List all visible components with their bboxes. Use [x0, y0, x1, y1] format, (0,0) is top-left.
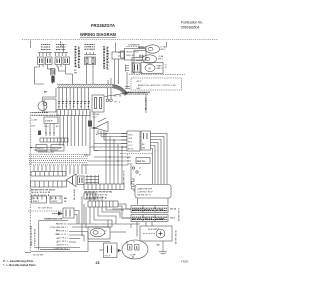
wire color code rows (right aligned) [50, 222, 67, 250]
solenoid valve vertical label column [103, 47, 109, 69]
inline connectors on wires [132, 167, 134, 169]
row wires to compressor area [69, 231, 88, 233]
relay box B [85, 57, 96, 65]
svg-text:RLY·BK: RLY·BK [93, 114, 100, 116]
svg-text:WH·2: WH·2 [158, 59, 163, 61]
ADC left wire [126, 72, 128, 88]
wire code table vertical labels [31, 225, 36, 246]
svg-text:CONTROL·BD·P: CONTROL·BD·P [138, 192, 154, 194]
svg-text:14: 14 [127, 161, 129, 163]
door light switch box 1 [38, 57, 45, 65]
svg-text:SOL·TN·8: SOL·TN·8 [57, 241, 67, 243]
text block below connector [127, 158, 130, 166]
comb strip row [40, 138, 68, 142]
fresh food thermistor box [50, 196, 62, 203]
evap fan motor box [141, 63, 163, 74]
crossing grid horizontals [98, 133, 127, 135]
stubs into compressor top [126, 241, 128, 244]
svg-text:DEF·TH·B: DEF·TH·B [52, 148, 62, 150]
horn output wires [97, 130, 99, 134]
svg-text:FRS26ZGTA: FRS26ZGTA [91, 23, 115, 28]
door switch label cluster 2 [56, 45, 66, 50]
svg-text:GD·GD·WH: GD·GD·WH [33, 255, 44, 257]
tick grid connector [86, 175, 100, 184]
horn mini box [88, 121, 92, 127]
evap fan relay box [133, 63, 141, 72]
main connector strip [57, 110, 90, 116]
strip2 drops to bottom wires [81, 196, 83, 236]
feeds into strip2 [89, 196, 91, 201]
svg-text:TN·8: TN·8 [31, 126, 35, 128]
left margin tick [30, 41, 32, 49]
comb ticks below labels [32, 197, 34, 200]
svg-text:AD·P: AD·P [137, 80, 142, 83]
damper horn component [95, 122, 108, 132]
svg-text:ADAPTIVE·DEFROST·CONTROL·BD: ADAPTIVE·DEFROST·CONTROL·BD [138, 84, 177, 87]
ground symbol [162, 241, 164, 252]
svg-text:ICEMAKER: ICEMAKER [128, 44, 140, 47]
center terminal strip [84, 184, 124, 190]
rotated label right of label rows [179, 207, 181, 221]
fresh food light lamp [143, 55, 157, 63]
wire above comb2 [63, 45, 65, 53]
svg-text:P··=··Fast·Moving·Parts: P··=··Fast·Moving·Parts [3, 259, 34, 263]
alarm buzzer funnel [66, 174, 76, 187]
wire from switch 3 to right [57, 67, 66, 71]
svg-text:DMPR·P: DMPR·P [37, 148, 45, 150]
svg-text:BK·WH·OR·YL·PK·TN·GY·BU: BK·WH·OR·YL·PK·TN·GY·BU [85, 192, 113, 194]
svg-text:BK·WH·OR·YL·PK·TN·GY: BK·WH·OR·YL·PK·TN·GY [31, 189, 56, 191]
comb strip above left terminal [31, 172, 66, 177]
short ticks below band2 [33, 165, 35, 172]
svg-text:BK·WH·OR·YL: BK·WH·OR·YL [123, 169, 125, 184]
dark label row under ADC [125, 92, 150, 94]
svg-text:YL: YL [56, 242, 58, 244]
door switch label cluster 1 [41, 45, 51, 50]
defrost thermostat box [51, 145, 64, 152]
svg-text:P=PART··B=BULK: P=PART··B=BULK [34, 228, 37, 246]
svg-text:WH·2: WH·2 [161, 49, 166, 51]
left terminal strip [31, 181, 67, 187]
icemaker left connector [121, 51, 125, 58]
svg-text:6: 6 [119, 102, 120, 104]
run capacitor circle [156, 229, 165, 238]
condenser fan box [44, 99, 56, 112]
mid relay box [92, 95, 104, 112]
labels under center strip [85, 192, 113, 200]
svg-text:PTC·P: PTC·P [105, 256, 111, 258]
svg-text:BU·16: BU·16 [128, 149, 133, 151]
arrow contacts [118, 249, 122, 252]
wires below door switches [39, 65, 41, 68]
comb bus 1 [38, 52, 52, 54]
wires from limit box [74, 211, 79, 225]
svg-text:WIRING DIAGRAM: WIRING DIAGRAM [80, 32, 117, 37]
dotted line left-bottom [28, 210, 62, 212]
wire drops from strip [59, 116, 61, 147]
svg-text:BU·16·ALM: BU·16·ALM [73, 189, 76, 200]
wires right of strip2 [118, 204, 131, 209]
main connector strip labels [58, 101, 90, 106]
svg-text:COMP: COMP [130, 255, 136, 257]
svg-text:BK·WH·OR·YL: BK·WH·OR·YL [138, 195, 152, 197]
adaptive defrost control dashed box [131, 78, 182, 90]
svg-text:14: 14 [119, 96, 121, 98]
ptc start relay box [104, 243, 118, 258]
relay box B labels [85, 44, 95, 49]
svg-text:ADAPTIVE·DEF: ADAPTIVE·DEF [138, 188, 153, 191]
svg-text:CC·PK·3: CC·PK·3 [58, 237, 67, 239]
svg-text:Publication No.: Publication No. [181, 21, 203, 25]
cold control box [44, 117, 58, 124]
right tick [166, 42, 168, 48]
left dashed border vertical [29, 112, 31, 251]
solenoid box [112, 52, 125, 59]
defrost timer vertical label column [75, 47, 81, 68]
ring terminals [107, 88, 109, 99]
rotated label right of cap box [176, 229, 178, 244]
relay box B bus [84, 54, 96, 56]
guard heater label row [131, 206, 168, 213]
icemaker right connector ticks [139, 55, 144, 57]
grid verticals dropping [105, 134, 107, 185]
condenser fan motor circle [38, 102, 47, 111]
ADC rounded box bottom right [135, 185, 171, 199]
compartment dashed line [129, 74, 185, 76]
junction connector small box [51, 69, 56, 76]
door light switch box 3 [55, 57, 62, 65]
vertical label under funnel [73, 189, 76, 200]
vertical label near zigzag [123, 169, 125, 184]
second connector box [141, 131, 151, 150]
wires above band right [107, 80, 109, 84]
main harness band [57, 84, 128, 95]
defrost limit box with arrow [63, 208, 74, 218]
svg-text:BK·WH·OR·GD: BK·WH·OR·GD [176, 229, 178, 244]
defrost heater label row [131, 215, 168, 222]
svg-text:DEF·TH: DEF·TH [137, 161, 145, 163]
svg-text:MOLD·HTR·P: MOLD·HTR·P [127, 52, 140, 54]
junction bar [88, 241, 110, 243]
svg-text:FZ·CONT·BK·14: FZ·CONT·BK·14 [38, 208, 52, 210]
zigzag left edge of ADC2 [132, 179, 135, 192]
converging wires to junction [45, 124, 47, 137]
svg-text:FF·TH: FF·TH [52, 198, 58, 200]
extra cross wires [94, 156, 131, 158]
svg-text:COND·FAN·WH·2: COND·FAN·WH·2 [50, 226, 67, 229]
door light switch box 4 [63, 57, 70, 65]
svg-text:14··2··6··12··3··8··16: 14··2··6··12··3··8··16 [31, 191, 51, 194]
comb bus 2 [54, 52, 68, 54]
svg-text:TX03: TX03 [181, 260, 188, 264]
svg-text:THERMOSTAT·HTR: THERMOSTAT·HTR [44, 218, 63, 221]
svg-text:RUN·CAP·P: RUN·CAP·P [148, 228, 160, 231]
right connector block [127, 131, 140, 151]
freezer thermistor box [32, 196, 47, 203]
svg-text:GD: GD [157, 245, 161, 247]
svg-text:PK·3: PK·3 [128, 142, 132, 144]
svg-text:14·2: 14·2 [93, 117, 97, 119]
svg-text:CC·8A: CC·8A [31, 119, 37, 122]
connector left stubs [121, 133, 127, 135]
freezer light lamp [146, 45, 160, 53]
svg-text:OR·6: OR·6 [128, 135, 133, 137]
nested staircase wires [151, 134, 168, 185]
svg-text:C·CTL·P: C·CTL·P [45, 121, 53, 123]
svg-text:TN·8: TN·8 [128, 138, 132, 140]
vertical label column right of wavy [145, 97, 148, 110]
wavy wire row below band [105, 92, 147, 96]
long verticals to lower grid [89, 112, 91, 155]
svg-text:P··B··P··B··P··B··P··B: P··B··P··B··P··B··P··B [86, 197, 107, 199]
svg-text:BK·WH·OR·YL: BK·WH·OR·YL [179, 207, 181, 221]
svg-text:5995388504: 5995388504 [181, 26, 200, 30]
svg-text:FZ·CONN: FZ·CONN [133, 73, 143, 75]
svg-text:14··2··6·12··3··8··9··16: 14··2··6·12··3··8··9··16 [86, 194, 108, 197]
funnel feeds [65, 165, 67, 176]
run capacitor box [140, 226, 172, 241]
dark mini component [38, 131, 41, 136]
svg-text:OL: OL [105, 231, 108, 233]
wire labels below band [114, 96, 121, 104]
labels below left strip [31, 189, 56, 197]
cold control label row [32, 113, 61, 116]
svg-text:12: 12 [165, 67, 167, 69]
svg-text:WIRE·COLOR·CODE: WIRE·COLOR·CODE [31, 225, 33, 246]
evap fan connector [125, 65, 127, 72]
wires up from strip to band [58, 88, 60, 110]
defrost thermostat dark box [136, 158, 150, 164]
svg-text:ERM·P: ERM·P [52, 201, 59, 203]
svg-text:M: M [149, 66, 151, 70]
bottom tail marks [25, 252, 31, 254]
svg-text:FZ·TH: FZ·TH [33, 198, 39, 200]
svg-text:FAN·P: FAN·P [157, 67, 163, 70]
svg-text:GY·9: GY·9 [128, 145, 132, 147]
center strip 2 [88, 201, 118, 207]
svg-text:BL·14: BL·14 [171, 208, 177, 211]
overload box with ellipse [88, 227, 110, 239]
band bend down-right [113, 86, 127, 95]
label rows dark overlay [132, 208, 167, 219]
svg-text:*··=··Non·Illustrated·Parts: *··=··Non·Illustrated·Parts [3, 263, 36, 267]
svg-text:EEV: EEV [137, 88, 142, 90]
door light switch box 2 [46, 57, 53, 65]
code table frame [38, 221, 40, 251]
wires from label rows [136, 222, 138, 237]
top rule [22, 39, 218, 41]
svg-text:FAN·BK·14: FAN·BK·14 [56, 222, 67, 225]
compressor oval [122, 240, 148, 259]
wire stub above cluster 2 [60, 41, 62, 44]
band2 dashed block [29, 154, 88, 165]
svg-text:COMP·BU·16: COMP·BU·16 [54, 248, 67, 250]
small comb component below [84, 193, 96, 199]
wire OL to compressor [110, 231, 126, 233]
dotted separator row [120, 153, 152, 155]
air damper box [36, 145, 47, 152]
drop wire to condenser fan [43, 88, 57, 102]
wires above band2 [30, 147, 32, 149]
bottom-left legend [3, 259, 36, 267]
svg-text:ERM·P: ERM·P [33, 201, 40, 203]
